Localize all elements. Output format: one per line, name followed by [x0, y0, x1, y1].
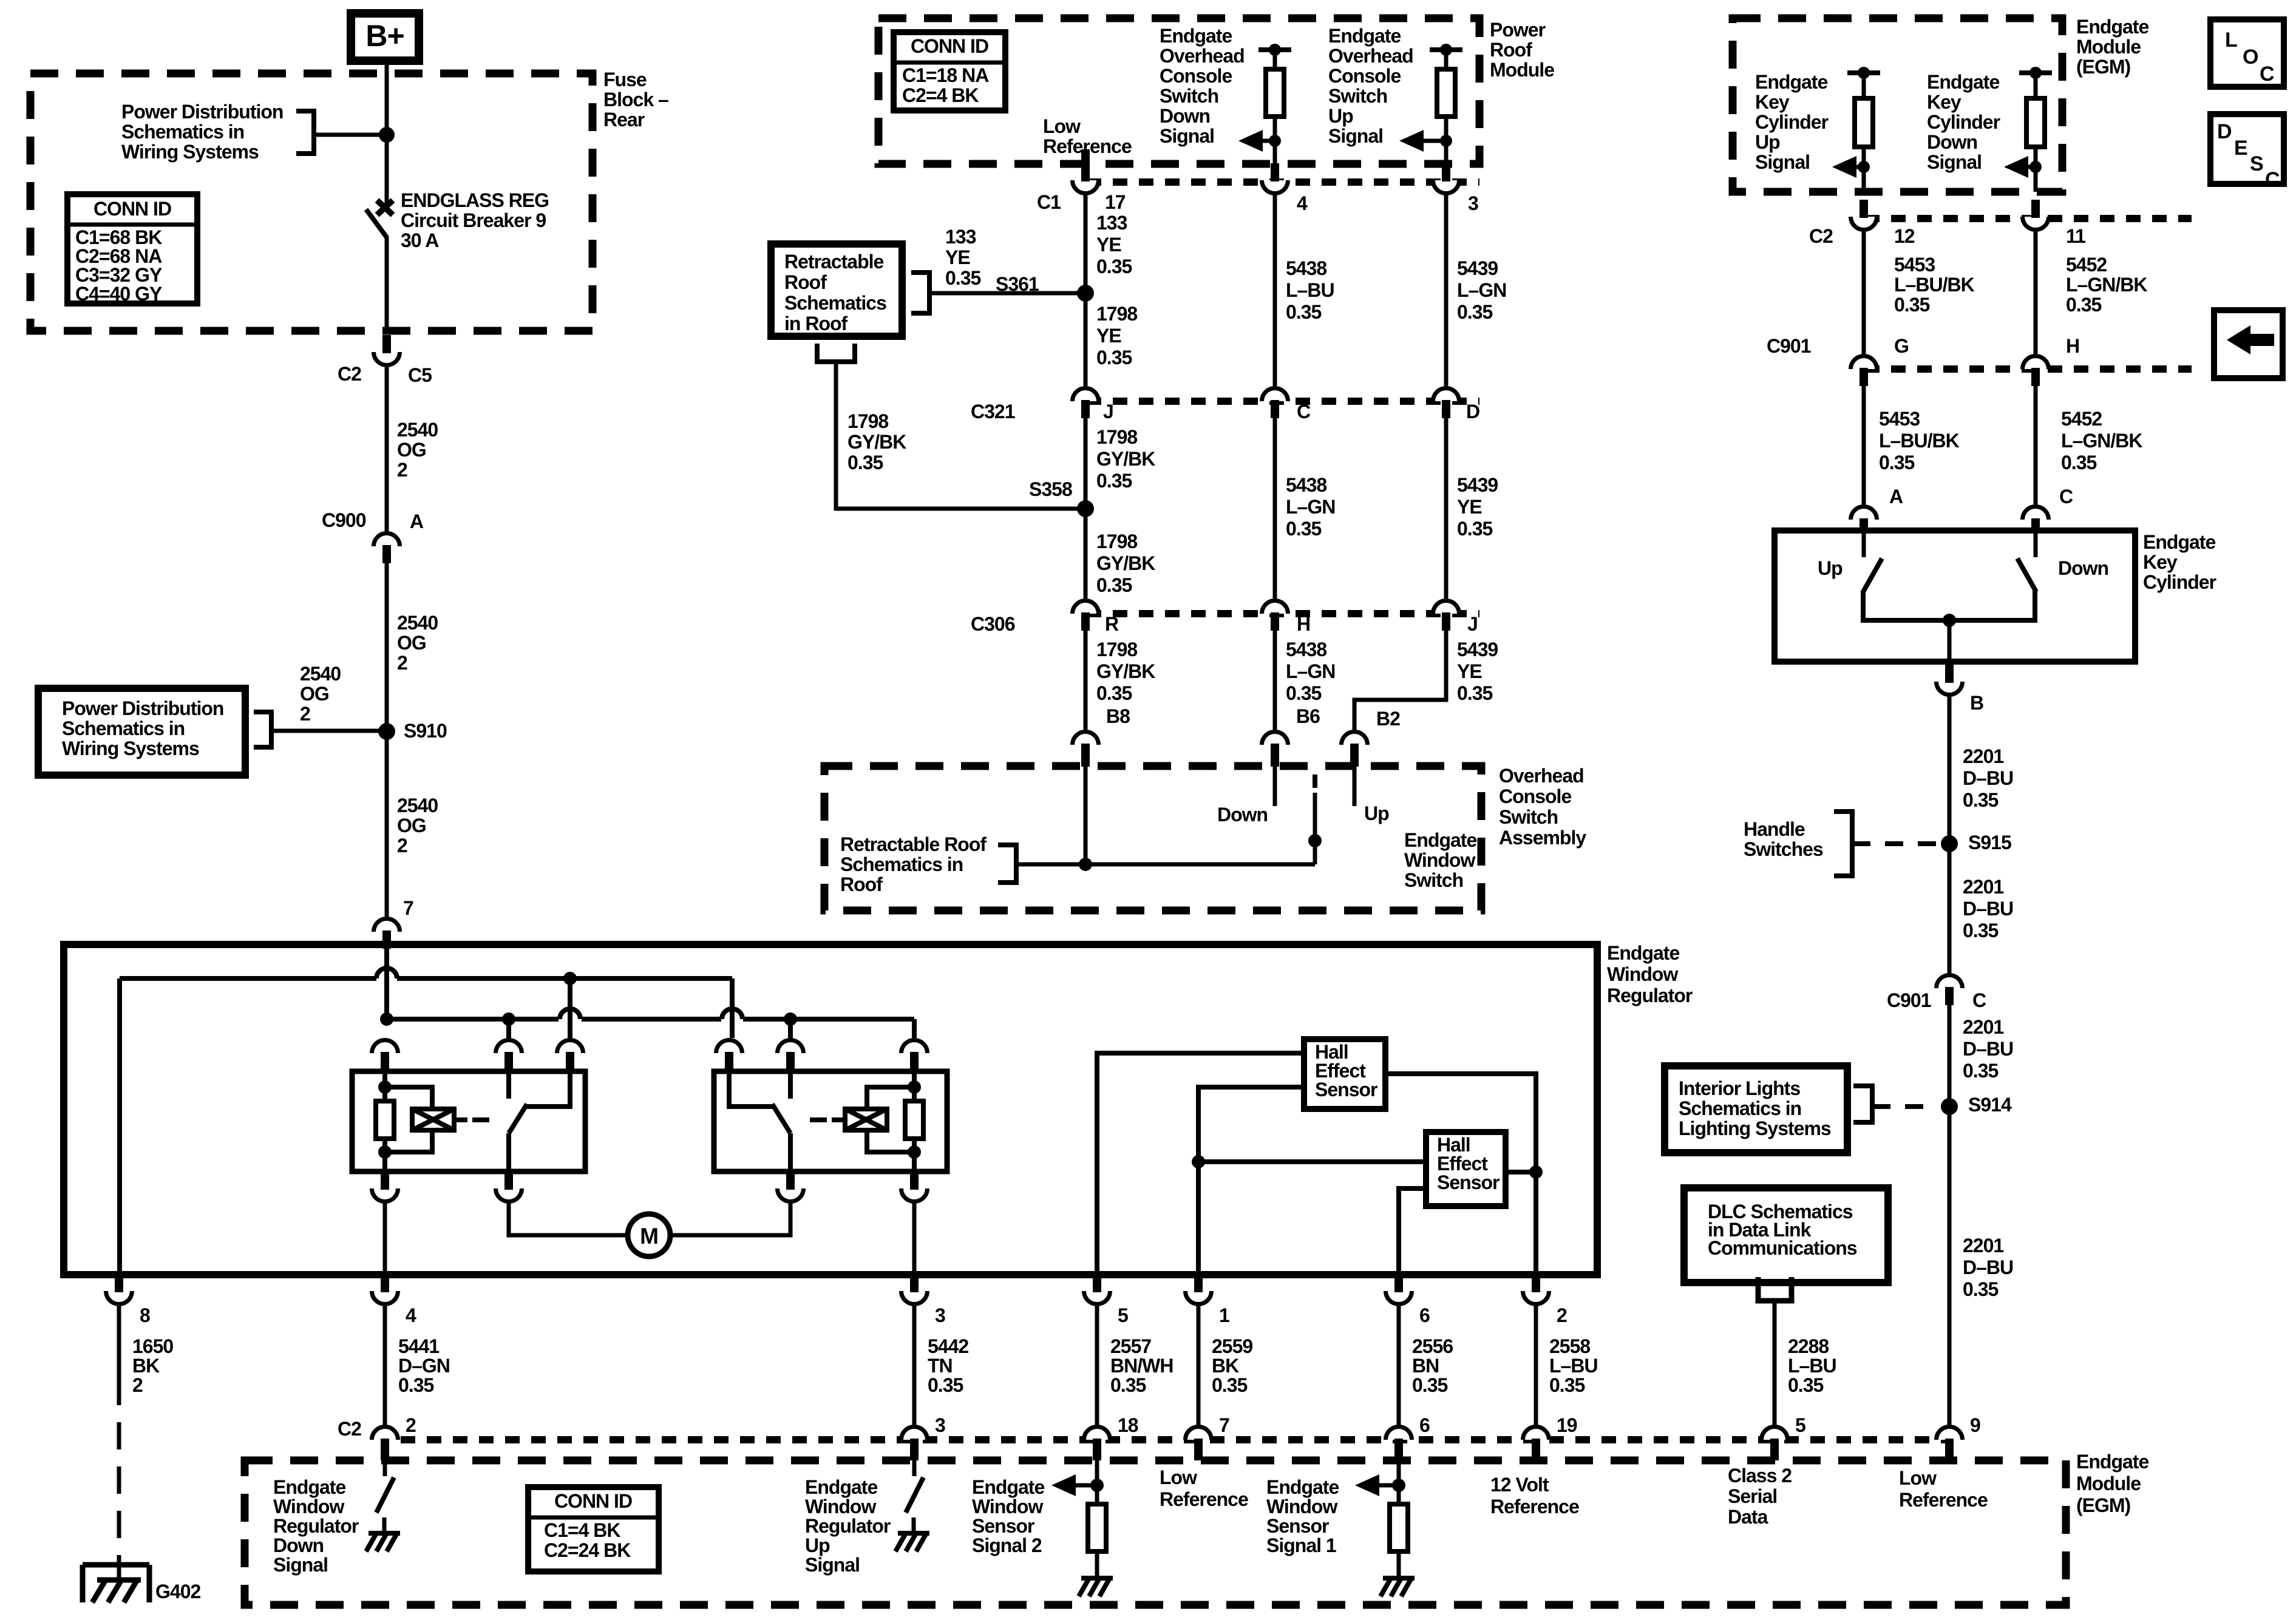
svg-text:OG: OG [397, 632, 426, 654]
EGM connector pin 2 [372, 1427, 398, 1440]
wire 2558 from pin 2 to EGM 19 [1534, 1306, 1538, 1425]
svg-text:Down: Down [2058, 557, 2108, 579]
svg-text:Schematics in: Schematics in [62, 717, 185, 739]
svg-text:30 A: 30 A [401, 229, 439, 251]
svg-text:3: 3 [935, 1414, 945, 1436]
svg-text:Console: Console [1328, 65, 1401, 87]
wire 2559 from pin 1 to EGM 7 [1197, 1306, 1201, 1425]
wire 5453 L-BU/BK 0.35 from C901-G to key cylinder A [1862, 386, 1866, 504]
svg-text:C: C [2059, 486, 2073, 507]
svg-text:C2=4 BK: C2=4 BK [902, 84, 979, 106]
svg-text:Endgate: Endgate [2143, 531, 2215, 553]
wire hall sensor outputs (pin 2) [1385, 1074, 1536, 1274]
svg-text:Schematics in: Schematics in [840, 853, 963, 875]
svg-text:D–BU: D–BU [1963, 898, 2013, 920]
svg-text:J: J [1467, 613, 1478, 635]
splice S915 [1941, 835, 1958, 852]
connector C321 pin C [1262, 388, 1288, 402]
svg-text:0.35: 0.35 [1457, 518, 1492, 540]
low reference pin stub [1081, 149, 1090, 165]
CONN ID table (fuse block) [67, 194, 197, 303]
svg-text:5453: 5453 [1894, 254, 1935, 276]
svg-text:Cylinder: Cylinder [1755, 111, 1829, 133]
bracket below retractable roof box [817, 344, 855, 362]
svg-text:Sensor: Sensor [1315, 1079, 1377, 1100]
up relay box [714, 1071, 947, 1171]
svg-text:5441: 5441 [398, 1335, 439, 1357]
wire 5452 L-GN/BK 0.35 from C2-11 to C901-H [2034, 232, 2038, 354]
svg-text:D–BU: D–BU [1963, 1256, 2013, 1278]
endgate overhead console switch down signal pull-up resistor [1258, 47, 1291, 52]
svg-text:Rear: Rear [603, 109, 645, 131]
svg-text:Up: Up [1364, 802, 1389, 824]
svg-text:5453: 5453 [1879, 408, 1920, 430]
down relay coil pin connector [372, 1040, 398, 1053]
svg-text:0.35: 0.35 [1096, 256, 1132, 277]
regulator output connector pin 2 [1523, 1291, 1549, 1304]
svg-text:2557: 2557 [1110, 1335, 1151, 1357]
svg-text:2: 2 [406, 1414, 416, 1436]
svg-text:0.35: 0.35 [928, 1374, 963, 1396]
svg-text:C1: C1 [1037, 191, 1061, 213]
splice S910 [378, 723, 395, 740]
connector C306 pin R [1073, 601, 1099, 614]
connector C1 pin 3 [1433, 180, 1459, 194]
splice at B8 wire [1079, 858, 1092, 871]
svg-text:Module: Module [1490, 59, 1554, 81]
svg-text:Lighting Systems: Lighting Systems [1679, 1117, 1831, 1139]
hall effect sensor 2 box [1426, 1132, 1506, 1206]
svg-text:YE: YE [945, 246, 970, 268]
svg-text:8: 8 [140, 1304, 150, 1326]
svg-text:18: 18 [1118, 1414, 1138, 1436]
wire 1798 GY/BK 0.35 from C321-J to S358 [1084, 418, 1088, 509]
connector B below key cylinder [1937, 682, 1963, 695]
svg-text:YE: YE [1096, 234, 1121, 256]
down relay switch blade [509, 1104, 527, 1133]
up relay fixed contact pin connector [778, 1040, 804, 1053]
svg-text:Down: Down [1927, 131, 1977, 153]
connector 7 into endgate window regulator [374, 919, 400, 932]
wire 1798 GY/BK 0.35 from C306-R to B8 [1084, 631, 1088, 730]
svg-text:YE: YE [1457, 496, 1482, 518]
svg-text:1: 1 [1219, 1304, 1229, 1326]
svg-text:BN/WH: BN/WH [1110, 1355, 1173, 1377]
svg-text:Class 2: Class 2 [1728, 1465, 1792, 1486]
wire 2288 L-BU 0.35 from DLC to EGM 5 [1773, 1301, 1777, 1425]
svg-text:1798: 1798 [1096, 531, 1137, 552]
svg-text:A: A [410, 510, 424, 532]
svg-text:0.35: 0.35 [1412, 1374, 1447, 1396]
svg-text:6: 6 [1419, 1414, 1430, 1436]
svg-text:3: 3 [935, 1304, 945, 1326]
svg-text:H: H [1297, 613, 1310, 635]
svg-text:Serial: Serial [1728, 1485, 1777, 1507]
svg-text:Roof: Roof [784, 271, 827, 293]
up relay coil branch [912, 1071, 917, 1101]
svg-text:O: O [2243, 46, 2258, 69]
svg-text:Endgate: Endgate [2076, 16, 2148, 38]
bracket from retractable roof note [998, 845, 1016, 883]
wire 2557 from pin 5 to EGM 18 [1095, 1306, 1099, 1425]
svg-text:C2: C2 [1809, 225, 1833, 247]
EGM connector pin 19 [1523, 1427, 1549, 1440]
svg-text:Module: Module [2076, 1473, 2141, 1494]
svg-text:Up: Up [1328, 105, 1353, 127]
splice junction on B+ feed [379, 127, 395, 143]
connector C321 pin D [1433, 388, 1459, 402]
Retractable Roof Schematics in Roof reference box [771, 244, 902, 336]
Interior Lights Schematics in Lighting Systems reference box [1665, 1066, 1847, 1153]
svg-text:12 Volt: 12 Volt [1490, 1474, 1549, 1496]
svg-text:S915: S915 [1968, 832, 2011, 853]
EGM connector row dotted interface [401, 1436, 1949, 1443]
svg-text:L–GN/BK: L–GN/BK [2066, 274, 2147, 296]
svg-text:0.35: 0.35 [1096, 347, 1132, 368]
svg-text:5438: 5438 [1286, 474, 1326, 496]
wire 2540 OG 2 from S910 to connector 7 [385, 731, 389, 917]
connector C306 pin H [1262, 601, 1288, 614]
svg-text:D: D [1466, 401, 1479, 422]
svg-text:R: R [1105, 613, 1119, 635]
svg-text:3: 3 [1468, 192, 1478, 214]
svg-text:in Roof: in Roof [784, 313, 848, 334]
svg-text:2540: 2540 [397, 419, 438, 441]
down relay coil output connector [372, 1188, 398, 1202]
svg-text:C4=40 GY: C4=40 GY [75, 283, 162, 305]
svg-text:9: 9 [1970, 1414, 1980, 1436]
connector C2 pin 11 [2023, 217, 2049, 230]
svg-text:19: 19 [1557, 1414, 1577, 1436]
svg-text:Low: Low [1899, 1467, 1937, 1489]
up relay coil pin connector [902, 1040, 928, 1053]
Endgate Module (EGM) dashed outline (top right) [1733, 18, 2062, 192]
Fuse Block - Rear dashed outline [30, 73, 593, 331]
svg-text:BN: BN [1412, 1355, 1439, 1377]
svg-text:B8: B8 [1106, 705, 1130, 727]
Overhead Console Switch Assembly dashed outline [824, 766, 1481, 910]
svg-text:Signal: Signal [1927, 151, 1982, 173]
connector row C1 dotted interface [1087, 178, 1479, 186]
svg-text:Overhead: Overhead [1328, 45, 1413, 67]
svg-text:Regulator: Regulator [1607, 985, 1693, 1006]
svg-text:5452: 5452 [2061, 408, 2102, 430]
svg-text:Window: Window [1266, 1496, 1337, 1517]
svg-text:Sensor: Sensor [972, 1515, 1034, 1537]
svg-text:0.35: 0.35 [945, 267, 980, 289]
svg-text:TN: TN [928, 1355, 953, 1377]
connector C306 pin J [1433, 601, 1459, 614]
svg-text:0.35: 0.35 [1457, 682, 1492, 704]
svg-text:4: 4 [406, 1304, 416, 1326]
Endgate Window Regulator box [64, 944, 1597, 1275]
svg-text:(EGM): (EGM) [2076, 56, 2131, 78]
svg-text:2: 2 [132, 1374, 143, 1396]
svg-text:G: G [1894, 335, 1909, 357]
svg-text:2: 2 [397, 835, 407, 856]
regulator output connector pin 1 [1185, 1291, 1211, 1304]
hall effect sensor 1 box [1304, 1039, 1385, 1109]
connector B6 [1262, 732, 1288, 745]
svg-text:YE: YE [1096, 325, 1121, 347]
svg-text:C: C [1972, 989, 1986, 1011]
wire 2540 OG 2 from C900 to S910 [385, 563, 389, 731]
svg-text:C: C [1297, 401, 1311, 422]
connector A at key cylinder [1851, 507, 1877, 520]
svg-text:133: 133 [945, 226, 976, 248]
up relay motor output connector [778, 1188, 804, 1202]
up contact from B2 [1353, 766, 1357, 806]
svg-text:Reference: Reference [1160, 1488, 1248, 1510]
svg-text:YE: YE [1457, 660, 1482, 682]
wire 5441 from pin 4 to EGM C2-2 [383, 1306, 387, 1425]
wire 1798 GY/BK 0.35 from retractable roof to S358 [836, 362, 1085, 509]
svg-text:Roof: Roof [1490, 39, 1532, 61]
svg-text:2: 2 [397, 652, 407, 674]
svg-text:2559: 2559 [1212, 1335, 1252, 1357]
splice and signal arrow (up signal) [1440, 135, 1452, 147]
svg-text:C321: C321 [971, 401, 1015, 422]
svg-text:0.35: 0.35 [1879, 452, 1914, 473]
svg-text:G402: G402 [155, 1581, 200, 1602]
svg-text:Communications: Communications [1708, 1237, 1857, 1259]
svg-text:0.35: 0.35 [2066, 294, 2101, 316]
svg-text:Signal 2: Signal 2 [972, 1534, 1042, 1556]
svg-text:Sensor: Sensor [1266, 1515, 1329, 1537]
svg-text:CONN ID: CONN ID [911, 35, 988, 57]
wire 5452 L-GN/BK 0.35 from C901-H to key cylinder C [2034, 386, 2038, 504]
svg-text:4: 4 [1297, 192, 1308, 214]
svg-text:Schematics: Schematics [784, 292, 886, 314]
svg-text:Endgate: Endgate [273, 1476, 345, 1498]
window motor M [628, 1214, 670, 1256]
svg-text:Retractable: Retractable [784, 251, 884, 273]
key cylinder down switch [2034, 531, 2038, 557]
svg-text:GY/BK: GY/BK [847, 431, 906, 453]
svg-text:S361: S361 [996, 273, 1039, 295]
svg-text:0.35: 0.35 [2061, 452, 2096, 473]
svg-text:Endgate: Endgate [1404, 829, 1476, 851]
svg-text:Endgate: Endgate [1328, 25, 1401, 47]
feed rail inside regulator (from pin 7) [384, 948, 389, 1019]
svg-text:L–BU: L–BU [1788, 1355, 1836, 1377]
svg-text:2201: 2201 [1963, 876, 2003, 898]
wire 2201 D-BU 0.35 from S914 to EGM pin 9 [1948, 1107, 1952, 1425]
ground rail inside regulator (from pin 8) [120, 976, 376, 981]
svg-text:0.35: 0.35 [1096, 574, 1132, 596]
svg-text:Module: Module [2076, 36, 2141, 58]
svg-text:C901: C901 [1887, 989, 1931, 1011]
svg-text:Low: Low [1043, 115, 1081, 137]
svg-text:L–BU/BK: L–BU/BK [1894, 274, 1975, 296]
svg-text:Endgate: Endgate [972, 1476, 1044, 1498]
bracket from handle switches note [1834, 812, 1852, 876]
svg-text:L–GN: L–GN [1286, 496, 1335, 518]
svg-text:L–BU: L–BU [1286, 279, 1334, 301]
wire from bracket to switch common [1016, 863, 1315, 867]
svg-text:Endgate: Endgate [1607, 942, 1679, 964]
svg-text:ENDGLASS REG: ENDGLASS REG [401, 189, 549, 211]
up relay coil link [832, 1117, 845, 1122]
svg-text:C2: C2 [338, 1418, 361, 1440]
svg-text:1798: 1798 [1096, 303, 1137, 325]
svg-text:Window: Window [972, 1496, 1043, 1517]
svg-text:Switch: Switch [1404, 869, 1463, 891]
endgate window sensor 2 pull-down resistor to ground [1095, 1460, 1099, 1504]
svg-text:H: H [2066, 335, 2079, 357]
endgate window switch feed from B8 [1084, 766, 1088, 864]
svg-text:B6: B6 [1296, 705, 1320, 727]
svg-text:Regulator: Regulator [273, 1515, 359, 1537]
wire 2540 OG 2 from fuse block to C900 [385, 367, 389, 531]
svg-text:5438: 5438 [1286, 639, 1326, 660]
svg-text:GY/BK: GY/BK [1096, 552, 1155, 574]
up relay coil (solenoid box) [845, 1109, 887, 1130]
connector C1 pin 17 [1084, 164, 1088, 167]
svg-text:Signal: Signal [273, 1554, 328, 1576]
bracket below DLC box [1758, 1277, 1792, 1301]
svg-text:133: 133 [1096, 212, 1127, 234]
ground G402 [83, 1562, 149, 1568]
wire 5442 from pin 3 to EGM 3 [912, 1306, 917, 1425]
endgate window sensor 1 pull-down resistor to ground [1397, 1460, 1401, 1504]
connector C901 pin H [2023, 356, 2049, 370]
svg-text:Low: Low [1160, 1466, 1197, 1488]
svg-text:C901: C901 [1767, 335, 1811, 357]
back-arrow legend box [2214, 310, 2283, 378]
up relay fixed contact [788, 1071, 793, 1099]
wire 1798 YE 0.35 from S361 to C321 [1084, 293, 1088, 386]
EGM connector pin 5 [1762, 1427, 1788, 1440]
connector B2 [1342, 732, 1368, 745]
dashed link from handle switches to S915 [1852, 841, 1937, 846]
wire 5438 L-GN 0.35 from C321-C to C306-H [1273, 418, 1277, 598]
svg-text:C2=24 BK: C2=24 BK [544, 1539, 631, 1561]
svg-text:Circuit Breaker 9: Circuit Breaker 9 [401, 209, 546, 231]
splice S358 [1077, 500, 1094, 517]
svg-text:0.35: 0.35 [1110, 1374, 1146, 1396]
EGM connector pin 3 [902, 1427, 928, 1440]
svg-text:L–GN: L–GN [1286, 660, 1335, 682]
svg-text:2556: 2556 [1412, 1335, 1453, 1357]
svg-text:5438: 5438 [1286, 257, 1326, 279]
svg-text:D: D [2217, 120, 2232, 143]
svg-text:Switch: Switch [1499, 806, 1558, 828]
wire 2201 D-BU 0.35 from S915 to C901-C [1948, 844, 1952, 973]
splice and arrow (key cylinder up signal) [1858, 161, 1870, 173]
svg-text:Console: Console [1160, 65, 1232, 87]
svg-text:OG: OG [300, 683, 329, 705]
svg-text:D–BU: D–BU [1963, 767, 2013, 789]
svg-text:Reference: Reference [1899, 1489, 1988, 1511]
svg-text:C306: C306 [971, 613, 1015, 635]
svg-text:Fuse: Fuse [603, 69, 647, 90]
wire 133 YE 0.35 from bracket to S361 [929, 291, 1085, 296]
svg-text:Endgate: Endgate [805, 1476, 877, 1498]
svg-text:Retractable Roof: Retractable Roof [840, 833, 987, 855]
Endgate Key Cylinder box [1775, 531, 2135, 662]
svg-text:0.35: 0.35 [1286, 518, 1321, 540]
svg-text:CONN ID: CONN ID [554, 1490, 632, 1512]
regulator output connector pin 4 [372, 1291, 398, 1304]
svg-text:J: J [1103, 401, 1113, 422]
svg-text:Roof: Roof [840, 873, 883, 895]
svg-text:L–BU: L–BU [1549, 1355, 1598, 1377]
svg-text:M: M [640, 1224, 658, 1249]
svg-text:L–GN/BK: L–GN/BK [2061, 430, 2142, 452]
svg-text:17: 17 [1105, 191, 1126, 213]
svg-text:L–GN: L–GN [1457, 279, 1506, 301]
svg-text:2: 2 [300, 703, 310, 725]
splice and signal arrow (down signal) [1269, 135, 1281, 147]
bracket from Power Distribution note [296, 111, 314, 154]
svg-text:2: 2 [1557, 1304, 1567, 1326]
svg-text:2540: 2540 [300, 663, 341, 685]
svg-text:E: E [2234, 137, 2247, 160]
wire hall sensor signals (pin 1) [1198, 1087, 1304, 1274]
svg-text:Signal: Signal [1160, 125, 1214, 147]
wire 2201 D-BU 0.35 from C901-C to S914 [1948, 1005, 1952, 1107]
svg-text:(EGM): (EGM) [2076, 1494, 2131, 1516]
svg-text:2558: 2558 [1549, 1335, 1590, 1357]
svg-text:Window: Window [805, 1496, 876, 1517]
key cylinder common wire [1863, 591, 2035, 620]
Power Roof Module dashed outline [878, 18, 1479, 164]
svg-text:5439: 5439 [1457, 639, 1498, 660]
svg-text:C900: C900 [322, 509, 366, 531]
wire hall sensor 1 supply (pin 5) [1097, 1053, 1304, 1274]
down relay coil link [454, 1117, 467, 1122]
dashed link from interior lights to S914 [1872, 1104, 1937, 1109]
svg-text:B: B [1970, 692, 1983, 714]
key cylinder up switch [1862, 531, 1866, 557]
wire 5439 YE 0.35 from C321-D to C306-J [1444, 418, 1449, 598]
down relay switch pin connector [557, 1040, 583, 1053]
wire 2556 from pin 6 to EGM 6 [1397, 1306, 1401, 1425]
svg-text:Switches: Switches [1744, 838, 1823, 860]
DESC legend box [2210, 114, 2284, 184]
svg-text:0.35: 0.35 [1963, 789, 1998, 811]
up relay coil output connector [902, 1188, 928, 1202]
svg-text:Power Distribution: Power Distribution [121, 101, 283, 123]
svg-text:Assembly: Assembly [1499, 827, 1586, 849]
svg-text:C: C [2260, 63, 2274, 86]
svg-text:Signal: Signal [1328, 125, 1383, 147]
svg-text:Window: Window [1607, 963, 1678, 985]
svg-text:Power: Power [1490, 19, 1546, 41]
EGM connector pin 9 [1937, 1427, 1963, 1440]
svg-text:1798: 1798 [847, 410, 888, 432]
wire 5438 L-BU 0.35 from C1-4 to C321-C [1273, 195, 1277, 386]
svg-text:0.35: 0.35 [847, 452, 883, 473]
svg-text:11: 11 [2066, 225, 2085, 247]
svg-text:1650: 1650 [132, 1335, 173, 1357]
svg-text:S358: S358 [1029, 478, 1072, 500]
regulator output connector pin 3 [902, 1291, 928, 1304]
svg-text:Console: Console [1499, 785, 1571, 807]
up relay switch pin connector [716, 1040, 742, 1053]
svg-text:C: C [2265, 168, 2280, 191]
wire 1650 BK 2 to ground G402 [117, 1306, 121, 1378]
EGM connector pin 6 [1386, 1427, 1412, 1440]
regulator output connector pin 5 [1084, 1291, 1110, 1304]
svg-text:C2: C2 [338, 363, 361, 385]
svg-text:D–GN: D–GN [398, 1355, 450, 1377]
svg-text:0.35: 0.35 [1286, 301, 1321, 323]
svg-text:Block –: Block – [603, 89, 668, 110]
svg-text:1798: 1798 [1096, 639, 1137, 660]
connector C1 pin 4 [1262, 180, 1288, 194]
